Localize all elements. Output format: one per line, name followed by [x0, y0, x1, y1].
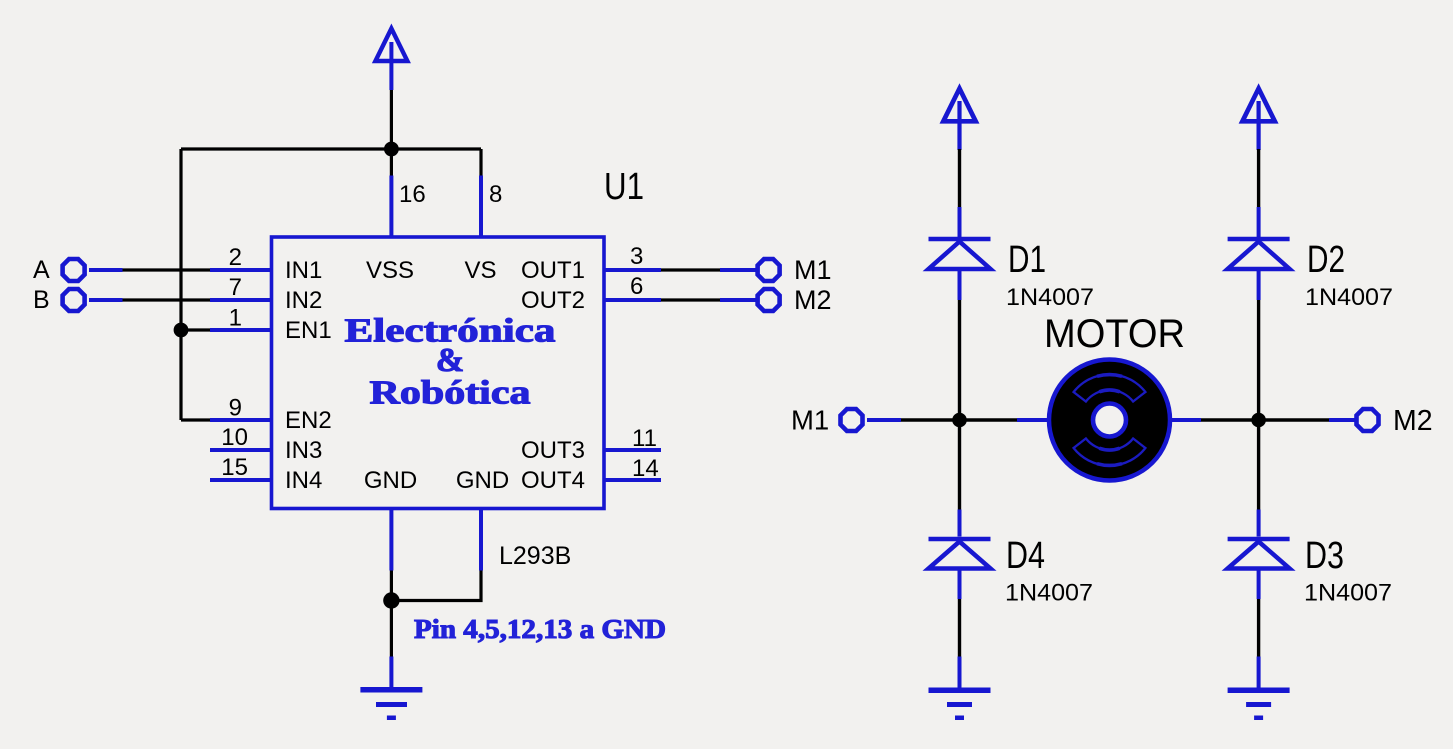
- svg-text:OUT3: OUT3: [521, 437, 585, 464]
- wire to D2: [1257, 149, 1260, 207]
- terminal B: [63, 289, 85, 311]
- wire GND left down: [390, 571, 393, 601]
- svg-text:M2: M2: [1393, 405, 1433, 437]
- svg-text:D4: D4: [1006, 535, 1045, 577]
- terminal M2 (motor): [1357, 409, 1379, 431]
- terminal M1 stub: [867, 418, 901, 422]
- svg-text:1N4007: 1N4007: [1006, 284, 1094, 311]
- ground symbol (below D3): [1228, 688, 1290, 721]
- D2 anode stub: [1257, 269, 1261, 300]
- svg-text:M1: M1: [791, 405, 829, 436]
- D3 cathode stub: [1257, 510, 1261, 537]
- svg-text:10: 10: [221, 424, 248, 451]
- power symbol (above D1): [943, 89, 975, 151]
- svg-text:U1: U1: [604, 166, 644, 208]
- junction dot M1 node: [952, 413, 967, 428]
- wire left vertical bus: [179, 149, 182, 420]
- op IC body U1 (L293B): [272, 237, 605, 509]
- pin 9 stub (EN2): [210, 418, 272, 422]
- terminal M2: [758, 289, 780, 311]
- svg-text:15: 15: [221, 454, 248, 481]
- wire D1 to motor line: [958, 300, 961, 420]
- diode D1: [929, 239, 991, 269]
- wire to pin 16: [390, 149, 393, 176]
- pin 7 stub (IN2): [210, 298, 272, 302]
- svg-text:D3: D3: [1305, 535, 1344, 577]
- pin 15 stub (IN4): [210, 478, 272, 482]
- svg-text:IN1: IN1: [285, 257, 322, 284]
- svg-text:2: 2: [229, 244, 242, 271]
- D1 cathode stub: [958, 207, 962, 237]
- wire EN1: [181, 328, 210, 331]
- power symbol (above D2): [1242, 89, 1274, 151]
- wire D2 to motor line: [1257, 300, 1260, 420]
- svg-text:A: A: [33, 256, 50, 284]
- svg-text:Pin 4,5,12,13 a GND: Pin 4,5,12,13 a GND: [414, 613, 666, 644]
- wire D4 to ground: [958, 599, 961, 657]
- svg-text:1N4007: 1N4007: [1005, 580, 1093, 607]
- wire to D1: [958, 149, 961, 207]
- svg-text:MOTOR: MOTOR: [1044, 312, 1185, 356]
- diode D3: [1228, 539, 1290, 569]
- svg-text:IN4: IN4: [285, 467, 322, 494]
- diode D2: [1228, 239, 1290, 269]
- svg-text:M2: M2: [794, 285, 832, 315]
- wire OUT1 to M1: [661, 268, 720, 271]
- svg-text:IN3: IN3: [285, 437, 322, 464]
- svg-text:6: 6: [630, 273, 643, 300]
- pin 13 stub (GND right): [479, 509, 483, 571]
- terminal A stub: [89, 268, 123, 272]
- svg-text:1N4007: 1N4007: [1305, 284, 1393, 311]
- D3 anode stub: [1257, 569, 1261, 600]
- svg-text:M1: M1: [794, 255, 832, 285]
- motor right pin stub: [1169, 418, 1201, 422]
- pin 1 stub (EN1): [210, 328, 272, 332]
- wire OUT2 to M2: [661, 298, 720, 301]
- power symbol VCC (left circuit): [375, 29, 407, 91]
- svg-text:7: 7: [229, 274, 242, 301]
- junction dot M2 node: [1251, 413, 1266, 428]
- wire D3 to ground: [1257, 599, 1260, 657]
- ground stub D3: [1257, 657, 1261, 688]
- pin 14 stub (OUT4): [604, 478, 661, 482]
- svg-text:1N4007: 1N4007: [1304, 580, 1392, 607]
- ground symbol (left circuit): [360, 687, 422, 720]
- wire EN2 corner: [181, 418, 210, 421]
- ground stub: [389, 657, 393, 688]
- wire motor line to D3: [1257, 420, 1260, 510]
- svg-text:VSS: VSS: [366, 257, 414, 284]
- svg-text:OUT1: OUT1: [521, 257, 585, 284]
- svg-text:3: 3: [630, 243, 643, 270]
- terminal A: [63, 259, 85, 281]
- terminal M2 stub: [720, 298, 756, 302]
- wire GND right corner: [391, 571, 481, 601]
- pin 6 stub (OUT2): [604, 298, 661, 302]
- pin 4 stub (GND left): [389, 509, 393, 571]
- svg-text:OUT2: OUT2: [521, 287, 585, 314]
- svg-text:D2: D2: [1307, 239, 1345, 281]
- junction dot at VCC node: [384, 142, 399, 157]
- D1 anode stub: [958, 269, 962, 300]
- terminal M1 stub: [720, 268, 756, 272]
- D4 cathode stub: [958, 510, 962, 537]
- svg-text:Robótica: Robótica: [370, 375, 531, 412]
- terminal B stub: [89, 298, 123, 302]
- svg-text:GND: GND: [364, 467, 417, 494]
- svg-text:14: 14: [632, 455, 659, 482]
- svg-text:1: 1: [229, 305, 242, 332]
- svg-text:OUT4: OUT4: [521, 467, 585, 494]
- wire VCC stem: [390, 90, 393, 149]
- D4 anode stub: [958, 569, 962, 600]
- motor left pin stub: [1017, 418, 1050, 422]
- pin 8 stub (VS): [479, 176, 483, 238]
- pin 11 stub (OUT3): [604, 448, 661, 452]
- junction dot EN1 node: [174, 323, 189, 338]
- pin 10 stub (IN3): [210, 448, 272, 452]
- svg-text:B: B: [33, 286, 50, 314]
- wire corner to pin 8: [479, 149, 482, 176]
- svg-text:GND: GND: [456, 467, 509, 494]
- svg-text:D1: D1: [1008, 239, 1046, 281]
- junction dot GND node: [383, 592, 399, 608]
- wire top horizontal: [181, 147, 481, 150]
- D2 cathode stub: [1257, 207, 1261, 237]
- svg-text:9: 9: [229, 395, 242, 422]
- wire motor line to D4: [958, 420, 961, 510]
- pin 16 stub (VSS): [389, 176, 393, 238]
- svg-text:IN2: IN2: [285, 287, 322, 314]
- wire A to IN1: [123, 268, 211, 271]
- svg-text:VS: VS: [464, 257, 496, 284]
- wire motor to M2: [1201, 418, 1329, 421]
- terminal M1: [758, 259, 780, 281]
- ground symbol (below D4): [929, 688, 991, 721]
- motor M: [1049, 360, 1170, 481]
- svg-text:16: 16: [399, 181, 426, 208]
- svg-text:8: 8: [489, 181, 502, 208]
- terminal M2 stub: [1329, 418, 1355, 422]
- wire GND node to ground: [390, 601, 393, 657]
- diode D4: [929, 539, 991, 569]
- wire M1 to motor: [901, 418, 1017, 421]
- svg-text:&: &: [436, 342, 464, 379]
- svg-text:L293B: L293B: [499, 542, 571, 570]
- svg-text:EN2: EN2: [285, 407, 332, 434]
- wire B to IN2: [123, 298, 211, 301]
- ground stub D4: [958, 657, 962, 688]
- pin 2 stub (IN1): [210, 268, 272, 272]
- terminal M1 (motor): [841, 409, 863, 431]
- svg-text:11: 11: [632, 425, 657, 452]
- pin 3 stub (OUT1): [604, 268, 661, 272]
- svg-text:EN1: EN1: [285, 317, 332, 344]
